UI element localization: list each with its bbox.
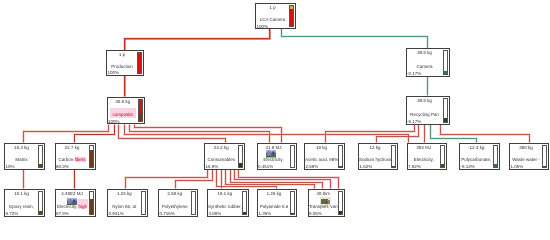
wire RecyclingPan->Polycarbonate (green) — [431, 125, 477, 143]
icon power-plant photo — [266, 150, 276, 158]
wire Consumables->Nylon — [126, 170, 208, 189]
node Camera (disposal) — [406, 48, 450, 77]
wire Consumables->Polyamide — [217, 170, 277, 189]
wire composite->Electricity41b — [135, 125, 282, 143]
node Electricity 41.8 MJ — [257, 143, 297, 170]
wire RecyclingPan->WasteWater — [441, 125, 530, 143]
wire CarbonFibers->ElectricityHigh (68%) — [74, 170, 76, 189]
wire Production->composite (red, 100%) — [124, 76, 126, 97]
wire Consumables->Transport3 — [235, 170, 331, 189]
node Synthetic rubber — [207, 189, 249, 217]
wire Consumables->Transport4 — [239, 170, 339, 189]
node Consumables — [204, 143, 245, 170]
node Matrix — [4, 143, 45, 170]
node composite (selected, pink highlight) — [107, 97, 146, 124]
node LCA Camera (top) — [255, 3, 296, 29]
highlight block — [77, 199, 88, 206]
node Waste water — [509, 143, 549, 170]
node Transport van — [308, 189, 346, 217]
icon power-plant photo — [67, 198, 77, 206]
wire Matrix->EpoxyResin — [23, 170, 25, 189]
node Electricity 394 MJ — [407, 143, 448, 170]
wire composite->Electricity41a — [130, 125, 270, 143]
wire LCA->Camera (green) — [282, 29, 428, 49]
wire composite->Electricity394 (long) — [125, 125, 409, 143]
wire RecyclingPan->SodiumHydroxide — [377, 125, 419, 143]
wire Consumables->Polyethylene — [176, 170, 213, 189]
wire RecyclingPan->AceticAcid — [326, 125, 415, 143]
node Polyethylene — [158, 189, 198, 217]
node Recycling Pan — [406, 96, 450, 125]
wire Consumables->Transport1 — [226, 170, 315, 189]
wire composite->CarbonFibers (80%) — [75, 125, 115, 143]
wire LCA->Production (red, 100%) — [125, 29, 270, 51]
wire RecyclingPan->Electricity394 — [424, 125, 426, 143]
wire Consumables->SyntheticRubber — [221, 170, 223, 189]
node Production — [106, 50, 144, 76]
wire Consumables->Transport2 — [231, 170, 323, 189]
node Carbon fibers — [55, 143, 96, 170]
icon truck photo — [320, 197, 331, 207]
node Epoxy resin — [4, 189, 45, 217]
node Nylon 66 — [107, 189, 148, 217]
node Polyamide 6.6 — [257, 189, 297, 217]
wire halo underlay (jpeg-like glow) — [24, 29, 530, 189]
node Acetic acid — [304, 143, 345, 170]
wire composite->Consumables — [119, 125, 226, 143]
node Electricity high voltage — [55, 189, 96, 217]
node Polycarbonate (avoided) — [459, 143, 500, 170]
wire Camera->RecyclingPan (green) — [427, 77, 429, 96]
wire composite->Matrix — [24, 125, 109, 143]
node Sodium hydroxide — [358, 143, 398, 170]
